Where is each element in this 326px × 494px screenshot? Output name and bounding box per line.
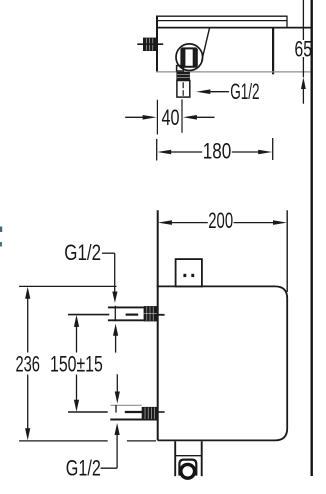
edge artifact blue speck 1 — [0, 227, 2, 233]
label G1/2 lower outlet — [66, 423, 120, 480]
front view: box dot left — [183, 274, 186, 277]
svg-text:G1/2: G1/2 — [230, 79, 259, 104]
front view: upper inlet pipe — [108, 306, 144, 308]
top view: wall plate line 2 — [157, 20, 287, 22]
front view: bottom outlet U-housing — [179, 460, 196, 476]
front view: bottom outlet shoulder line — [175, 455, 202, 457]
front view: top small box — [176, 259, 202, 286]
top view: left connector centerline — [137, 43, 163, 45]
top view: body back edge — [156, 27, 312, 29]
top view: knob circle — [176, 44, 203, 71]
lower inlet pointer from above — [115, 374, 120, 403]
top view: body left edge — [156, 16, 158, 73]
top view: body front edge (thin) — [156, 71, 311, 73]
dimension 65 — [295, 0, 312, 104]
front view: body top edge — [157, 285, 275, 287]
svg-text:150±15: 150±15 — [50, 351, 103, 376]
front view: bottom outlet ring — [181, 464, 195, 478]
front view: lower inlet leader tick — [115, 405, 117, 413]
front view: lower inlet centerline — [68, 411, 108, 413]
label G1/2 upper inlet — [64, 240, 118, 352]
front view: body left edge with extension — [157, 210, 159, 440]
top view: lever diagonal line — [202, 28, 210, 61]
top view: spout threaded section — [176, 72, 190, 81]
front view: lower inlet thread hatch — [142, 407, 158, 420]
top view: spout centerline dashes — [182, 82, 184, 88]
top view: small square at circle bottom-left — [177, 66, 184, 71]
top view: knob inner square — [181, 48, 196, 66]
front view: bottom outlet neck right — [201, 441, 203, 476]
dimension 150±15 — [50, 315, 103, 412]
leader G1/2 (top view) — [196, 79, 260, 104]
dimension 200 — [158, 208, 287, 233]
svg-text:180: 180 — [203, 138, 232, 163]
top view: body right edge — [272, 27, 274, 74]
top view: left threaded connector G1/2 — [143, 38, 156, 51]
top view: spout pipe — [177, 81, 190, 98]
svg-text:40: 40 — [162, 105, 180, 130]
top view: wall plate line 1 — [157, 15, 287, 17]
svg-text:65: 65 — [295, 36, 312, 61]
dimension 236 — [15, 286, 156, 441]
front view: upper inlet centerline — [68, 314, 109, 316]
front view: box dot right — [191, 274, 194, 277]
front view: bottom outlet neck left — [174, 441, 176, 476]
front view: right extension line — [286, 210, 288, 292]
svg-text:200: 200 — [208, 208, 233, 233]
wall line — [311, 0, 313, 476]
top view: knob left bar — [182, 49, 185, 67]
dimension 40 — [125, 99, 214, 134]
edge artifact blue speck 2 — [0, 242, 2, 247]
front view: body right side with rounded corners and bottom edge — [158, 286, 288, 440]
svg-text:G1/2: G1/2 — [66, 455, 101, 480]
front view: lower inlet pipe — [111, 404, 142, 406]
top view: knob right bar — [193, 49, 196, 67]
svg-text:G1/2: G1/2 — [64, 240, 101, 265]
front view: upper inlet thread hatch — [144, 306, 157, 321]
dimension 180 — [157, 138, 273, 163]
svg-text:236: 236 — [15, 351, 40, 376]
top view: wall plate right end — [286, 16, 288, 28]
